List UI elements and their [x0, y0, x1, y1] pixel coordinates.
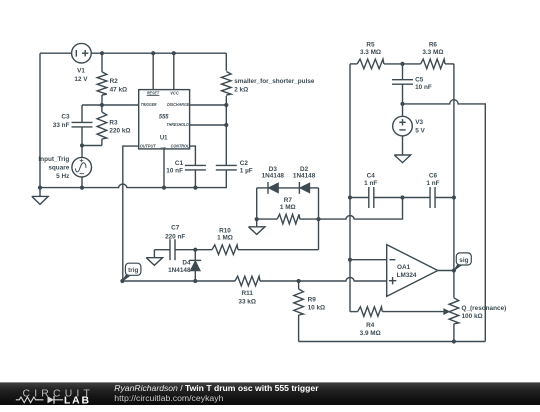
- svg-text:10 nF: 10 nF: [415, 84, 432, 91]
- svg-text:R10: R10: [219, 228, 231, 235]
- svg-text:33 nF: 33 nF: [53, 122, 70, 129]
- svg-text:GND: GND: [161, 146, 167, 150]
- svg-text:C3: C3: [61, 114, 70, 121]
- svg-text:C1: C1: [175, 160, 184, 167]
- svg-text:2 kΩ: 2 kΩ: [234, 87, 248, 94]
- svg-text:VCC: VCC: [170, 90, 179, 95]
- svg-text:R6: R6: [429, 42, 438, 49]
- svg-text:TRIGGER: TRIGGER: [141, 102, 157, 107]
- svg-text:100 kΩ: 100 kΩ: [462, 313, 483, 320]
- svg-text:http://circuitlab.com/ceykayh: http://circuitlab.com/ceykayh: [114, 393, 223, 403]
- svg-text:RyanRichardson / Twin T drum o: RyanRichardson / Twin T drum osc with 55…: [114, 383, 319, 393]
- svg-text:47 kΩ: 47 kΩ: [110, 86, 128, 93]
- svg-text:V1: V1: [77, 68, 85, 75]
- svg-text:LM324: LM324: [397, 272, 417, 279]
- svg-text:R4: R4: [366, 322, 375, 329]
- svg-text:33 kΩ: 33 kΩ: [238, 299, 256, 306]
- svg-text:V3: V3: [415, 119, 423, 126]
- svg-text:1N4148: 1N4148: [262, 173, 285, 180]
- svg-text:1 µF: 1 µF: [240, 168, 253, 175]
- svg-text:1N4148: 1N4148: [168, 267, 191, 274]
- svg-text:1 nF: 1 nF: [364, 180, 377, 187]
- svg-text:R7: R7: [284, 197, 293, 204]
- svg-text:C6: C6: [429, 173, 438, 180]
- svg-text:D4: D4: [182, 260, 191, 267]
- svg-text:C4: C4: [367, 173, 376, 180]
- svg-text:10 nF: 10 nF: [166, 168, 183, 175]
- svg-text:square: square: [48, 165, 69, 172]
- svg-text:Input_Trig: Input_Trig: [38, 156, 69, 163]
- svg-text:3.3 MΩ: 3.3 MΩ: [422, 49, 443, 56]
- svg-text:3.9 MΩ: 3.9 MΩ: [360, 330, 381, 337]
- svg-text:C7: C7: [171, 224, 180, 231]
- svg-text:RESET: RESET: [147, 90, 159, 95]
- svg-text:LAB: LAB: [64, 396, 91, 407]
- svg-text:1 nF: 1 nF: [426, 180, 439, 187]
- svg-text:1 MΩ: 1 MΩ: [280, 204, 296, 211]
- svg-text:Q_(resonance): Q_(resonance): [462, 305, 507, 312]
- svg-text:1 MΩ: 1 MΩ: [217, 235, 233, 242]
- svg-text:C5: C5: [415, 76, 424, 83]
- svg-text:OUTPUT: OUTPUT: [140, 144, 156, 149]
- svg-text:sig: sig: [459, 257, 468, 264]
- svg-text:10 kΩ: 10 kΩ: [308, 304, 326, 311]
- svg-text:220 kΩ: 220 kΩ: [109, 128, 130, 135]
- svg-text:R5: R5: [366, 42, 375, 49]
- svg-text:R3: R3: [109, 119, 118, 126]
- svg-text:DISCHARGE: DISCHARGE: [167, 102, 189, 107]
- svg-text:U1: U1: [160, 135, 168, 142]
- svg-text:OA1: OA1: [397, 264, 411, 271]
- svg-text:3.3 MΩ: 3.3 MΩ: [360, 49, 381, 56]
- svg-text:THRESHOLD: THRESHOLD: [167, 122, 189, 127]
- svg-text:smaller_for_shorter_pulse: smaller_for_shorter_pulse: [234, 78, 315, 85]
- svg-text:555: 555: [159, 113, 169, 120]
- svg-text:R11: R11: [242, 290, 254, 297]
- svg-text:R9: R9: [308, 296, 317, 303]
- svg-text:R2: R2: [110, 78, 119, 85]
- svg-text:220 nF: 220 nF: [165, 233, 185, 240]
- svg-text:5 V: 5 V: [415, 127, 425, 134]
- svg-text:5 Hz: 5 Hz: [56, 173, 69, 180]
- svg-text:C2: C2: [240, 160, 249, 167]
- svg-text:CONTROL: CONTROL: [171, 144, 190, 149]
- svg-text:1N4148: 1N4148: [293, 173, 316, 180]
- svg-text:12 V: 12 V: [74, 76, 88, 83]
- svg-text:trig: trig: [128, 267, 138, 274]
